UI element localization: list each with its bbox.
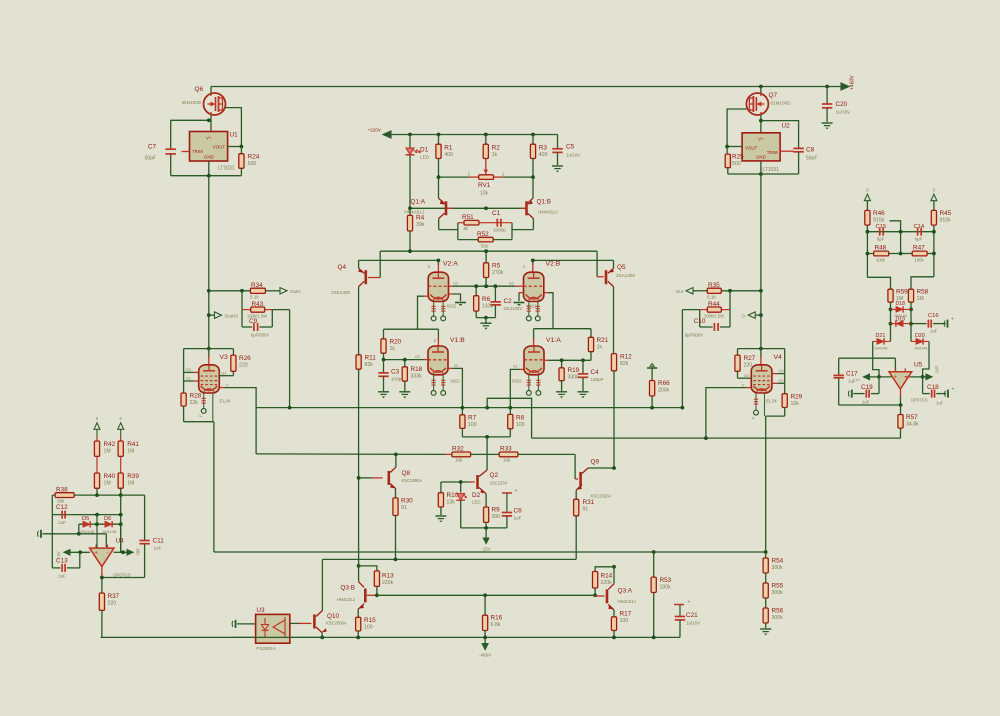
svg-text:R5: R5: [492, 263, 501, 270]
svg-text:R15: R15: [364, 617, 376, 624]
svg-text:6pF/600V: 6pF/600V: [251, 333, 269, 338]
svg-text:R56: R56: [772, 608, 784, 615]
svg-text:D19: D19: [896, 316, 906, 322]
svg-text:R32: R32: [452, 446, 464, 453]
svg-text:220: 220: [239, 363, 248, 369]
svg-text:1uF: 1uF: [930, 329, 938, 334]
svg-text:3k: 3k: [463, 226, 469, 231]
svg-text:R42: R42: [104, 441, 116, 448]
svg-text:2SC2234: 2SC2234: [490, 481, 508, 486]
svg-text:D1: D1: [420, 147, 429, 154]
svg-text:R37: R37: [108, 593, 120, 600]
svg-text:220: 220: [108, 601, 117, 607]
svg-text:G1: G1: [186, 377, 191, 381]
svg-text:+: +: [94, 551, 98, 557]
svg-text:G2: G2: [453, 282, 458, 286]
svg-text:100k: 100k: [915, 258, 925, 263]
svg-text:220: 220: [744, 363, 753, 369]
svg-text:C8: C8: [806, 147, 815, 154]
svg-text:G1: G1: [779, 379, 784, 383]
svg-text:V4: V4: [774, 354, 783, 361]
svg-text:01: 01: [513, 365, 517, 369]
svg-text:C19: C19: [861, 384, 873, 391]
svg-text:1u/16V: 1u/16V: [686, 621, 700, 626]
svg-text:270k: 270k: [492, 270, 504, 276]
svg-text:V2:A: V2:A: [443, 261, 458, 268]
svg-text:100k: 100k: [876, 258, 886, 263]
svg-text:R7: R7: [468, 415, 477, 422]
svg-text:V+: V+: [206, 136, 212, 141]
svg-text:500: 500: [732, 161, 741, 167]
svg-text:KSC2560A: KSC2560A: [591, 494, 612, 499]
svg-text:6pF: 6pF: [915, 237, 923, 242]
svg-text:D20: D20: [915, 333, 925, 339]
svg-text:1M: 1M: [127, 449, 134, 455]
svg-text:R24: R24: [248, 154, 260, 161]
svg-text:R2: R2: [492, 145, 501, 152]
svg-text:39k: 39k: [57, 499, 65, 504]
svg-text:OP07GS: OP07GS: [911, 398, 928, 403]
svg-text:Out: Out: [676, 289, 684, 294]
svg-text:-: -: [107, 550, 109, 556]
svg-text:C14: C14: [914, 224, 925, 230]
svg-text:-460V: -460V: [479, 653, 492, 658]
svg-text:R41: R41: [127, 441, 139, 448]
svg-text:01M100D: 01M100D: [771, 101, 792, 106]
svg-text:R46: R46: [873, 210, 885, 217]
svg-text:R17: R17: [620, 611, 632, 618]
svg-text:6922: 6922: [450, 379, 460, 384]
svg-text:-15V: -15V: [481, 547, 490, 552]
svg-text:Q9: Q9: [591, 459, 600, 466]
svg-text:TRIM: TRIM: [192, 149, 203, 154]
svg-text:1uF: 1uF: [154, 546, 162, 551]
svg-text:50pF: 50pF: [145, 156, 156, 162]
svg-text:R44: R44: [708, 301, 720, 308]
svg-text:10k: 10k: [503, 458, 511, 463]
svg-text:200k: 200k: [658, 388, 670, 394]
svg-text:100: 100: [468, 422, 477, 428]
svg-text:330k: 330k: [568, 375, 580, 381]
svg-text:R16: R16: [491, 615, 503, 622]
svg-text:Q1:B: Q1:B: [537, 199, 552, 206]
svg-text:39k: 39k: [416, 222, 425, 228]
svg-text:1N4148: 1N4148: [914, 347, 927, 351]
svg-text:6022: 6022: [447, 304, 457, 309]
svg-text:C6: C6: [514, 508, 523, 515]
svg-text:D18: D18: [896, 301, 906, 307]
svg-text:1N4148: 1N4148: [874, 347, 887, 351]
svg-text:G3: G3: [779, 369, 784, 373]
svg-text:KSC2690A: KSC2690A: [402, 478, 423, 483]
svg-text:LT1031: LT1031: [218, 166, 235, 172]
svg-text:C18: C18: [927, 384, 939, 391]
svg-text:1u/16V: 1u/16V: [836, 110, 851, 115]
svg-text:C10: C10: [694, 318, 706, 325]
svg-text:400: 400: [539, 152, 548, 158]
svg-text:100: 100: [364, 625, 373, 631]
svg-text:1M: 1M: [127, 481, 134, 487]
svg-text:G3: G3: [186, 368, 191, 372]
svg-text:100: 100: [620, 618, 629, 624]
svg-text:1N4148: 1N4148: [102, 529, 117, 534]
svg-text:Q4: Q4: [337, 264, 346, 271]
svg-text:VOUT: VOUT: [213, 145, 226, 150]
svg-text:C7: C7: [148, 144, 157, 151]
svg-text:R52: R52: [477, 231, 489, 238]
svg-text:C2: C2: [504, 298, 513, 305]
svg-text:100k: 100k: [660, 585, 672, 591]
svg-text:V2:B: V2:B: [546, 261, 561, 268]
svg-text:LED: LED: [420, 155, 430, 161]
svg-text:R57: R57: [906, 414, 918, 421]
svg-text:Q3:B: Q3:B: [340, 585, 355, 592]
svg-text:1k: 1k: [597, 345, 603, 351]
svg-text:1M: 1M: [104, 449, 111, 455]
svg-text:R3: R3: [539, 145, 548, 152]
svg-text:R28: R28: [190, 393, 202, 400]
svg-text:+: +: [894, 374, 898, 380]
svg-text:R55: R55: [772, 583, 784, 590]
svg-text:C16: C16: [928, 313, 939, 319]
svg-text:VOUT: VOUT: [745, 146, 758, 151]
svg-text:C9: C9: [249, 318, 258, 325]
svg-text:34.8k: 34.8k: [906, 422, 919, 428]
svg-text:+: +: [515, 488, 518, 494]
svg-text:5.1k: 5.1k: [250, 295, 259, 300]
svg-text:500: 500: [248, 161, 257, 167]
svg-text:02: 02: [454, 364, 458, 368]
svg-text:82k: 82k: [365, 362, 374, 368]
svg-text:U2: U2: [782, 123, 791, 130]
svg-text:333k: 333k: [411, 374, 423, 380]
svg-text:22k: 22k: [190, 400, 199, 406]
svg-text:V+: V+: [758, 137, 764, 142]
svg-text:R48: R48: [875, 245, 887, 252]
svg-text:D21: D21: [876, 333, 886, 339]
svg-text:TRIM: TRIM: [767, 150, 778, 155]
svg-text:R31: R31: [583, 499, 595, 506]
svg-text:91: 91: [401, 505, 407, 511]
svg-text:R20: R20: [390, 339, 402, 346]
svg-text:OP07GS: OP07GS: [113, 573, 131, 578]
svg-text:22u/100V: 22u/100V: [504, 306, 523, 311]
svg-text:R47: R47: [913, 245, 925, 252]
svg-text:C11: C11: [153, 538, 165, 545]
svg-text:LT1031: LT1031: [762, 167, 779, 173]
svg-text:R54: R54: [772, 558, 784, 565]
svg-text:50pF: 50pF: [806, 156, 817, 162]
svg-text:R58: R58: [917, 289, 929, 296]
svg-text:R40: R40: [104, 473, 116, 480]
svg-text:U5: U5: [914, 362, 923, 369]
svg-text:LED: LED: [472, 500, 481, 505]
svg-text:05N100D: 05N100D: [182, 100, 202, 105]
svg-text:10k: 10k: [480, 191, 489, 197]
svg-text:1M: 1M: [917, 296, 924, 302]
svg-text:1k: 1k: [390, 346, 396, 352]
svg-text:C: C: [226, 383, 229, 387]
svg-text:100: 100: [516, 422, 525, 428]
svg-text:KSC2690A: KSC2690A: [326, 621, 347, 626]
svg-text:Q2: Q2: [490, 472, 499, 479]
svg-text:G2: G2: [744, 374, 749, 378]
svg-text:1uF: 1uF: [936, 401, 944, 406]
svg-text:V3: V3: [220, 354, 229, 361]
svg-text:.1uF: .1uF: [57, 520, 66, 525]
svg-text:R18: R18: [411, 366, 423, 373]
svg-text:5.1k: 5.1k: [707, 295, 716, 300]
svg-text:O/P: O/P: [935, 366, 940, 373]
svg-text:2SA1406: 2SA1406: [616, 273, 635, 278]
svg-text:.1uF: .1uF: [57, 574, 66, 579]
svg-text:G2: G2: [509, 282, 514, 286]
svg-text:R12: R12: [620, 354, 632, 361]
svg-text:R66: R66: [658, 380, 670, 387]
svg-text:+460V: +460V: [850, 75, 856, 90]
svg-text:C13: C13: [56, 558, 68, 565]
svg-text:D6: D6: [104, 516, 111, 522]
svg-text:RV1: RV1: [478, 182, 491, 189]
svg-text:220k: 220k: [601, 580, 613, 586]
svg-text:91: 91: [583, 507, 589, 513]
svg-text:R21: R21: [597, 337, 609, 344]
svg-text:1k: 1k: [492, 152, 498, 158]
svg-text:51k: 51k: [481, 244, 489, 249]
svg-text:Q3:A: Q3:A: [618, 588, 633, 595]
svg-text:Q5: Q5: [617, 264, 626, 271]
svg-text:V1:B: V1:B: [450, 337, 465, 344]
svg-text:1uF: 1uF: [862, 400, 870, 405]
svg-text:6pF: 6pF: [877, 237, 885, 242]
svg-text:C4: C4: [591, 369, 600, 376]
svg-text:1M: 1M: [104, 481, 111, 487]
svg-text:U1: U1: [230, 132, 239, 139]
svg-text:R34: R34: [251, 282, 263, 289]
svg-text:C21: C21: [686, 612, 698, 619]
svg-text:U4: U4: [116, 538, 125, 545]
svg-text:R39: R39: [127, 473, 139, 480]
svg-text:+B5: +B5: [136, 548, 141, 556]
svg-text:G2: G2: [415, 355, 420, 359]
svg-text:R13: R13: [382, 573, 394, 580]
svg-text:910k: 910k: [940, 218, 952, 224]
svg-text:300k: 300k: [772, 615, 784, 621]
svg-text:300k: 300k: [772, 590, 784, 596]
svg-text:HN4C51J: HN4C51J: [337, 597, 355, 602]
svg-text:D5: D5: [82, 516, 89, 522]
svg-text:HN4A51J: HN4A51J: [538, 210, 558, 215]
svg-text:130pF: 130pF: [591, 377, 604, 382]
svg-text:GND: GND: [204, 155, 214, 160]
svg-text:Q8: Q8: [402, 470, 411, 477]
svg-text:1000p: 1000p: [493, 228, 506, 233]
svg-text:1u/16V: 1u/16V: [566, 153, 581, 158]
svg-text:R26: R26: [239, 355, 251, 362]
svg-text:82k: 82k: [620, 361, 629, 367]
svg-text:OutH: OutH: [290, 289, 301, 294]
svg-text:HN4C51J: HN4C51J: [618, 599, 636, 604]
svg-text:+: +: [688, 600, 691, 606]
svg-text:R38: R38: [56, 487, 68, 494]
svg-text:400: 400: [444, 152, 453, 158]
svg-text:Q7: Q7: [769, 92, 778, 99]
svg-text:10k: 10k: [791, 401, 800, 407]
svg-text:R25: R25: [732, 154, 744, 161]
svg-text:OutH2: OutH2: [225, 313, 239, 318]
svg-text:1N4148: 1N4148: [80, 529, 95, 534]
svg-text:1uF: 1uF: [514, 516, 522, 521]
svg-text:C1: C1: [492, 210, 501, 217]
svg-text:6922: 6922: [512, 379, 522, 384]
svg-text:6pF/600V: 6pF/600V: [685, 333, 703, 338]
svg-text:R11: R11: [365, 355, 377, 362]
svg-text:910k: 910k: [873, 218, 885, 224]
svg-text:R6: R6: [482, 296, 491, 303]
svg-text:300: 300: [492, 514, 501, 520]
svg-text:D2: D2: [472, 492, 481, 499]
svg-text:Q1:A: Q1:A: [410, 199, 425, 206]
svg-text:R8: R8: [516, 415, 525, 422]
svg-text:6.8k: 6.8k: [491, 622, 501, 628]
svg-text:R59: R59: [896, 289, 908, 296]
svg-text:300k: 300k: [772, 565, 784, 571]
svg-text:R53: R53: [660, 577, 672, 584]
svg-text:O: O: [741, 313, 745, 318]
svg-text:100k/1.5W: 100k/1.5W: [704, 314, 724, 319]
svg-text:C12: C12: [56, 504, 68, 511]
svg-text:G2: G2: [222, 371, 227, 375]
svg-text:10k: 10k: [455, 458, 463, 463]
svg-text:+: +: [951, 317, 954, 323]
svg-text:R1: R1: [444, 145, 453, 152]
svg-text:C20: C20: [836, 101, 848, 108]
svg-text:GND: GND: [756, 155, 766, 160]
svg-text:R29: R29: [791, 394, 803, 401]
svg-text:C5: C5: [566, 144, 575, 151]
svg-text:V1:A: V1:A: [546, 337, 561, 344]
svg-text:PS2501A: PS2501A: [256, 646, 276, 651]
svg-text:R9: R9: [492, 507, 501, 514]
svg-text:13k: 13k: [447, 500, 456, 506]
svg-text:R51: R51: [462, 214, 474, 221]
svg-text:C: C: [742, 383, 745, 387]
svg-text:C17: C17: [846, 371, 858, 378]
svg-text:R45: R45: [940, 210, 952, 217]
svg-text:220k: 220k: [382, 580, 394, 586]
svg-text:U3: U3: [256, 607, 265, 614]
svg-text:C15: C15: [876, 224, 887, 230]
svg-text:R35: R35: [708, 282, 720, 289]
svg-text:+: +: [952, 387, 955, 393]
svg-text:R43: R43: [252, 301, 264, 308]
svg-text:R33: R33: [500, 446, 512, 453]
svg-text:Q6: Q6: [194, 86, 203, 93]
svg-text:+220V: +220V: [368, 128, 382, 133]
svg-text:EL34: EL34: [766, 399, 777, 404]
svg-text:R14: R14: [601, 573, 613, 580]
svg-text:EL34: EL34: [220, 399, 231, 404]
svg-text:R19: R19: [568, 367, 580, 374]
svg-text:R4: R4: [416, 215, 425, 222]
svg-text:Q10: Q10: [327, 613, 340, 620]
svg-text:2SK1406: 2SK1406: [331, 290, 350, 295]
svg-text:R27: R27: [744, 355, 756, 362]
svg-text:R30: R30: [401, 498, 413, 505]
svg-text:C3: C3: [391, 369, 400, 376]
